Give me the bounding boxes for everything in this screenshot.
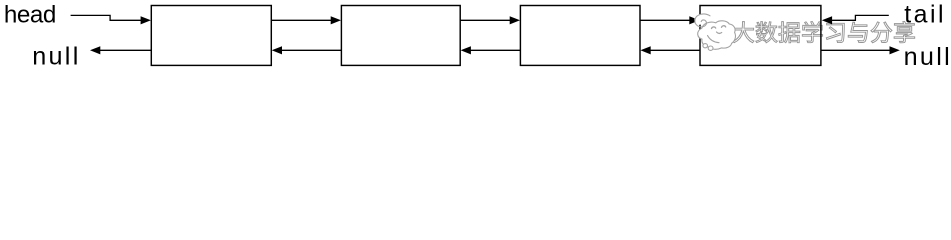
watermark logo eyes (712, 27, 716, 29)
node box 1 (151, 6, 271, 66)
arrowhead head->node1 (141, 16, 151, 24)
wire head to node1 (71, 15, 142, 20)
node box 2 (341, 6, 460, 66)
wire next node2->node3 (460, 19, 512, 21)
wire tail to node4 (831, 15, 889, 20)
watermark logo feet (703, 44, 708, 48)
watermark text 大数据学习与分享 (733, 21, 915, 42)
wire next node1->node2 (271, 19, 333, 21)
svg-text:null: null (32, 42, 80, 70)
svg-text:head: head (4, 2, 56, 29)
watermark logo swirl (695, 14, 710, 27)
watermark logo wing (708, 36, 720, 43)
arrowhead next node2->node3 (510, 16, 520, 24)
node box 3 (520, 6, 640, 66)
arrowhead next node3->node4 (689, 16, 699, 24)
wire node1 prev to null (100, 49, 151, 51)
watermark logo mouth (717, 32, 722, 33)
svg-text:tail: tail (904, 1, 946, 29)
arrowhead prev node2->node1 (272, 46, 282, 54)
watermark logo swirl fill (694, 14, 704, 24)
arrowhead node1->null (90, 46, 100, 54)
wire node4 next to null (821, 49, 890, 51)
wire prev node4->node3 (648, 49, 700, 51)
svg-text:null: null (904, 43, 951, 70)
arrowhead tail->node4 (822, 16, 832, 24)
arrowhead prev node4->node3 (640, 46, 650, 54)
wire prev node3->node2 (468, 49, 520, 51)
arrowhead node4->null (890, 46, 900, 54)
wire next node3->node4 (640, 19, 692, 21)
arrowhead next node1->node2 (331, 16, 341, 24)
watermark logo cloud (694, 14, 735, 50)
wire prev node2->node1 (279, 49, 341, 51)
node box 4 (700, 6, 821, 66)
arrowhead prev node3->node2 (461, 46, 471, 54)
